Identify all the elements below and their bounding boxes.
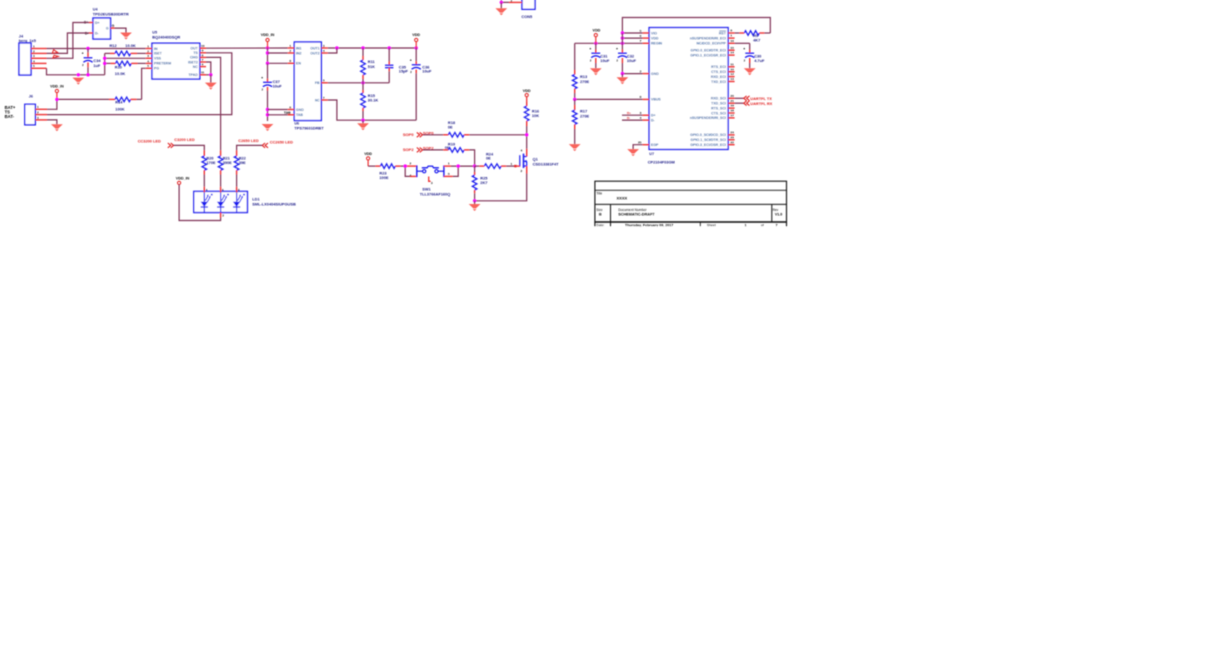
- svg-text:10uF: 10uF: [627, 58, 637, 63]
- power VDD at SW1: [364, 152, 372, 166]
- svg-text:GND: GND: [296, 108, 304, 112]
- svg-text:U7: U7: [649, 152, 654, 156]
- svg-text:VBUS: VBUS: [651, 98, 661, 102]
- capacitor C34 1uF: [82, 49, 102, 75]
- svg-text:V1.0: V1.0: [775, 212, 782, 216]
- connector J4 berg_1x5: [19, 34, 47, 75]
- svg-text:GPIO.3_ECI/DSR_ECI: GPIO.3_ECI/DSR_ECI: [690, 143, 726, 147]
- resistor R20 170E: [202, 150, 216, 174]
- svg-text:25: 25: [638, 141, 642, 145]
- svg-text:9: 9: [730, 29, 732, 33]
- ground at C31: [590, 68, 602, 75]
- svg-text:17: 17: [730, 114, 734, 118]
- svg-text:11: 11: [730, 62, 734, 66]
- net flag D- at U7: [627, 116, 630, 120]
- capacitor C37 10uF: [261, 63, 282, 108]
- svg-text:+: +: [82, 52, 84, 56]
- svg-text:15: 15: [730, 46, 734, 50]
- wire net VSS (U5.3): [105, 57, 146, 59]
- wire net R20 to LD1: [203, 175, 205, 187]
- svg-text:8: 8: [289, 59, 291, 63]
- resistor R24 0E: [475, 151, 517, 168]
- resistor R17 270E: [572, 99, 589, 144]
- svg-text:PG: PG: [154, 67, 159, 71]
- svg-text:5: 5: [323, 79, 325, 83]
- wire net VDD_IN (IN2/EN column): [266, 48, 288, 65]
- resistor R21 390E: [218, 150, 232, 174]
- svg-text:TAB: TAB: [296, 113, 303, 117]
- svg-text:Title: Title: [596, 191, 602, 195]
- svg-text:GPIO.1_SCI/DTR_SCI: GPIO.1_SCI/DTR_SCI: [690, 138, 725, 142]
- svg-text:IN2: IN2: [296, 51, 302, 55]
- svg-text:4: 4: [520, 149, 522, 153]
- svg-text:VDD_IN: VDD_IN: [176, 177, 190, 181]
- ground at R15: [357, 120, 369, 130]
- svg-text:RTS_SCI: RTS_SCI: [711, 106, 726, 110]
- resistor R25 2K7: [472, 166, 488, 201]
- svg-text:3: 3: [323, 44, 325, 48]
- svg-text:XXXX: XXXX: [617, 196, 628, 201]
- svg-text:G: G: [112, 24, 115, 28]
- svg-text:+: +: [616, 47, 618, 51]
- capacitor C30 4.7uF: [735, 43, 765, 68]
- svg-text:14: 14: [730, 51, 734, 55]
- power VDD_IN at LD1: [176, 177, 190, 185]
- resistor R18 0E: [423, 120, 469, 137]
- wire net VDD (U6.OUT rail): [328, 46, 418, 49]
- svg-text:8: 8: [238, 188, 240, 192]
- off-page UARTFL TX: [744, 96, 773, 101]
- wire net SOP2 (R19 to switch node): [469, 150, 474, 166]
- svg-text:4: 4: [147, 59, 149, 63]
- svg-text:VIO: VIO: [651, 31, 657, 35]
- connector J6 battery: [25, 94, 47, 124]
- svg-text:6: 6: [202, 63, 204, 67]
- svg-text:24: 24: [730, 131, 734, 135]
- svg-text:3: 3: [33, 54, 35, 58]
- svg-text:OUT2: OUT2: [310, 51, 319, 55]
- svg-text:NC/DCD_ECI/VPP: NC/DCD_ECI/VPP: [697, 42, 727, 46]
- wire net VDD (column to C32): [621, 33, 623, 50]
- svg-text:GPIO.0_ECI/DTR_ECI: GPIO.0_ECI/DTR_ECI: [690, 49, 725, 53]
- wire net FB (U6.5): [328, 81, 389, 84]
- resistor R10 10.0K: [105, 61, 146, 76]
- svg-text:EGP: EGP: [651, 143, 659, 147]
- wire net GND (U5 ISET2/TPAD): [206, 62, 213, 77]
- svg-text:CC3200 LED: CC3200 LED: [138, 138, 161, 143]
- svg-text:100E: 100E: [379, 175, 388, 180]
- svg-text:18: 18: [730, 109, 734, 113]
- svg-text:170E: 170E: [206, 160, 215, 165]
- wire net GND (U6 TAB pin): [268, 114, 288, 116]
- svg-text:13: 13: [730, 77, 734, 81]
- svg-text:UARTFL RX: UARTFL RX: [750, 101, 772, 106]
- svg-text:4K7: 4K7: [753, 37, 760, 42]
- svg-text:TLL3766AF160Q: TLL3766AF160Q: [420, 192, 451, 197]
- resistor R14 100K: [57, 97, 142, 111]
- wire net ~RST loop: [622, 18, 770, 34]
- svg-text:TXD_SCI: TXD_SCI: [711, 102, 726, 106]
- svg-text:TXD_ECI: TXD_ECI: [711, 80, 726, 84]
- svg-text:TPAD: TPAD: [189, 73, 199, 77]
- wire net VBUS (U7.8): [573, 98, 643, 101]
- svg-text:2: 2: [33, 49, 35, 53]
- wire net VDD_IN (J6.1 column): [47, 98, 59, 110]
- svg-text:C2650 LED: C2650 LED: [238, 138, 259, 143]
- svg-text:2: 2: [222, 213, 224, 217]
- svg-text:270E: 270E: [580, 114, 589, 119]
- svg-text:SML-LX0404SIUPGUSB: SML-LX0404SIUPGUSB: [252, 202, 296, 207]
- svg-text:2: 2: [37, 111, 39, 115]
- wire net GND (J6.3): [47, 120, 57, 124]
- svg-text:RTS_ECI: RTS_ECI: [711, 65, 726, 69]
- svg-text:7: 7: [202, 58, 204, 62]
- off-page SOP0: [403, 131, 434, 138]
- svg-text:2K7: 2K7: [480, 180, 487, 185]
- svg-text:4.7uF: 4.7uF: [754, 58, 765, 63]
- capacitor C36 10uF: [410, 48, 432, 120]
- wire net C2650 LED (to R22): [237, 145, 263, 150]
- svg-text:VDD: VDD: [412, 33, 420, 37]
- wire net D- (J4.2 to U4): [47, 33, 90, 53]
- svg-text:22: 22: [730, 140, 734, 144]
- svg-text:1: 1: [448, 162, 450, 166]
- svg-text:NC: NC: [315, 98, 320, 102]
- wire net UARTFL TX (U7.20): [735, 97, 744, 99]
- resistor R11 51K: [361, 48, 376, 83]
- svg-text:1: 1: [289, 44, 291, 48]
- svg-text:+: +: [743, 47, 745, 51]
- svg-text:5: 5: [147, 64, 149, 68]
- svg-text:2: 2: [289, 49, 291, 53]
- wire net PG (U5.5 to R14): [142, 68, 146, 99]
- resistor R13 270E: [572, 43, 589, 99]
- svg-text:R14: R14: [115, 99, 123, 104]
- ground at U6: [262, 124, 274, 131]
- ground at CON5: [495, 2, 507, 15]
- resistor R12 10.0K: [105, 43, 146, 56]
- wire net TS (U5.9 to J6.2): [47, 53, 232, 115]
- wire net GND (R25/Q1 source): [473, 174, 527, 203]
- svg-text:CP2104F03GM: CP2104F03GM: [648, 159, 675, 164]
- svg-text:RXD_SCI: RXD_SCI: [711, 97, 726, 101]
- power VDD at R16: [523, 89, 531, 97]
- svg-text:D+: D+: [95, 21, 100, 25]
- switch SW1 TLL3766AF160Q: [405, 162, 458, 197]
- resistor R16 10K: [524, 97, 539, 135]
- svg-text:TS: TS: [193, 51, 198, 55]
- wire net GND (J4.5 bottom run): [47, 68, 105, 76]
- ground at R25: [469, 201, 481, 211]
- svg-text:D-: D-: [627, 116, 630, 120]
- svg-text:10uF: 10uF: [600, 58, 610, 63]
- svg-text:10: 10: [730, 67, 734, 71]
- svg-text:4: 4: [323, 49, 325, 53]
- wire net VDD (REGIN run): [575, 42, 643, 45]
- svg-text:2: 2: [511, 0, 513, 3]
- wire net Q1 drain: [525, 133, 528, 149]
- svg-text:CC2650 LED: CC2650 LED: [270, 139, 293, 144]
- off-page CC2650 LED: [238, 138, 293, 148]
- power VDD_IN at U6: [261, 33, 275, 48]
- esd-protection U4 TPD2EUSB30DRTR: [84, 7, 129, 39]
- wire net GND (U6 GND/TAB column): [266, 108, 269, 121]
- wire net GND (U7.25): [633, 145, 643, 149]
- svg-text:VSS: VSS: [154, 57, 162, 61]
- svg-text:+: +: [261, 76, 263, 80]
- svg-text:5: 5: [448, 172, 450, 176]
- svg-text:J6: J6: [29, 94, 33, 98]
- svg-text:1: 1: [511, 162, 513, 166]
- connector CON5: [509, 0, 535, 19]
- svg-text:Document Number: Document Number: [618, 208, 647, 212]
- svg-text:7: 7: [323, 96, 325, 100]
- svg-text:4: 4: [33, 59, 35, 63]
- off-page SOP2: [403, 146, 434, 153]
- svg-text:+: +: [589, 47, 591, 51]
- capacitor C32 10uF: [616, 47, 637, 74]
- svg-text:VDD_IN: VDD_IN: [50, 84, 64, 88]
- svg-text:39E: 39E: [239, 160, 246, 165]
- svg-text:2: 2: [520, 169, 522, 173]
- svg-text:SCHEMATIC-DRAFT: SCHEMATIC-DRAFT: [618, 213, 655, 217]
- svg-text:CHG: CHG: [190, 56, 198, 60]
- wire net D+ (U7.3): [622, 114, 643, 116]
- svg-text:10uF: 10uF: [273, 84, 283, 89]
- svg-text:D+: D+: [627, 111, 631, 115]
- charger U5 BQ24040DSQR: [146, 31, 206, 79]
- svg-text:CON5: CON5: [521, 14, 533, 19]
- svg-text:TPS79601DRBT: TPS79601DRBT: [294, 125, 324, 130]
- net flag D- at J4: [52, 50, 57, 54]
- wire net R22 to LD1: [236, 175, 238, 187]
- svg-text:SOP2: SOP2: [403, 147, 414, 152]
- svg-text:CSD13381F4T: CSD13381F4T: [533, 162, 560, 167]
- ground at J6: [51, 124, 63, 131]
- svg-text:3: 3: [640, 111, 642, 115]
- svg-text:100K: 100K: [115, 106, 124, 111]
- svg-text:6: 6: [289, 105, 291, 109]
- ground at U7 EGP: [627, 149, 639, 156]
- svg-text:PRETERM: PRETERM: [154, 62, 171, 66]
- wire net GND (U7 GND pin): [621, 72, 643, 75]
- svg-text:VDD: VDD: [593, 28, 601, 32]
- svg-text:VDD: VDD: [364, 152, 372, 156]
- svg-text:1: 1: [745, 223, 747, 227]
- svg-text:1: 1: [730, 34, 732, 38]
- svg-text:19: 19: [730, 104, 734, 108]
- svg-text:VDD: VDD: [523, 89, 531, 93]
- svg-text:16: 16: [730, 39, 734, 43]
- svg-text:+: +: [410, 59, 412, 63]
- wire net VBUS (J4.1 to U5.IN): [47, 47, 146, 50]
- svg-text:Size: Size: [596, 208, 602, 212]
- svg-text:21: 21: [730, 99, 734, 103]
- svg-text:9: 9: [202, 49, 204, 53]
- svg-text:VDD: VDD: [651, 36, 659, 40]
- svg-text:3: 3: [431, 181, 433, 185]
- wire net SW out: [404, 164, 477, 167]
- svg-text:7: 7: [776, 223, 778, 227]
- svg-text:10uF: 10uF: [422, 69, 432, 74]
- resistor R19 0E: [423, 141, 469, 152]
- wire net VDD (VIO pin): [621, 31, 643, 34]
- svg-text:RST: RST: [719, 31, 727, 35]
- capacitor C31 10uF: [589, 43, 610, 68]
- svg-text:VDD_IN: VDD_IN: [261, 33, 275, 37]
- svg-text:270E: 270E: [580, 79, 589, 84]
- svg-text:1: 1: [33, 44, 35, 48]
- svg-text:RXD_ECI: RXD_ECI: [711, 75, 726, 79]
- svg-text:of: of: [761, 223, 764, 227]
- wire net SOP0 (R18 to R16 node): [469, 134, 526, 136]
- resistor R22 39E: [234, 150, 246, 174]
- svg-text:G: G: [106, 26, 109, 30]
- svg-text:4: 4: [640, 116, 642, 120]
- svg-text:5: 5: [640, 29, 642, 33]
- svg-text:NC: NC: [193, 65, 199, 69]
- svg-text:2: 2: [410, 162, 412, 166]
- led LD1 SML-LX0404SIUPGUSB: [194, 187, 296, 218]
- svg-text:GPIO.0_SCI/DCD_SCI: GPIO.0_SCI/DCD_SCI: [690, 133, 726, 137]
- svg-text:1: 1: [147, 44, 149, 48]
- wire net UARTFL RX (U7.21): [735, 102, 744, 104]
- svg-text:51K: 51K: [368, 64, 375, 69]
- wire net GND (U6.7/R15/C36 run): [328, 100, 416, 122]
- svg-text:11: 11: [201, 71, 205, 75]
- wire net VDD_IN (IN2 spur): [268, 52, 288, 54]
- svg-text:23: 23: [730, 135, 734, 139]
- svg-text:3: 3: [147, 54, 149, 58]
- svg-text:R10: R10: [115, 65, 122, 70]
- svg-text:0E: 0E: [448, 125, 453, 130]
- svg-text:BAT-: BAT-: [5, 114, 15, 119]
- label TAB: [284, 111, 291, 115]
- svg-text:IN: IN: [154, 47, 158, 51]
- svg-text:REGIN: REGIN: [651, 42, 663, 46]
- svg-text:10.0K: 10.0K: [125, 43, 136, 48]
- wire net VDD (OUT2 spur): [328, 48, 337, 53]
- regulator U6 TPS79601DRBT: [288, 42, 328, 130]
- ground at U7 GND: [617, 74, 629, 85]
- svg-text:8: 8: [640, 95, 642, 99]
- svg-text:IN1: IN1: [296, 46, 302, 50]
- ground at R17: [569, 144, 581, 151]
- svg-text:0E: 0E: [486, 156, 491, 161]
- svg-text:EN: EN: [296, 62, 301, 66]
- svg-text:3: 3: [37, 116, 39, 120]
- ground at J4 input: [72, 78, 84, 85]
- usb-uart U7 CP2104F03GM: [638, 28, 735, 165]
- wire net CHG (U5.8 to R21): [206, 57, 221, 150]
- svg-text:6: 6: [640, 34, 642, 38]
- svg-text:TPD2EUSB30DRTR: TPD2EUSB30DRTR: [93, 11, 129, 16]
- net flag D+ at J4: [53, 55, 59, 58]
- svg-text:OUT1: OUT1: [310, 46, 319, 50]
- svg-text:ISET: ISET: [154, 52, 163, 56]
- ground at U5.TPAD: [205, 75, 217, 90]
- svg-text:30.1K: 30.1K: [368, 98, 379, 103]
- wire net G (U4 to ground): [115, 28, 127, 32]
- svg-text:1uF: 1uF: [93, 63, 101, 68]
- svg-text:12: 12: [730, 72, 734, 76]
- svg-text:Sheet: Sheet: [707, 223, 716, 227]
- svg-text:nSUSPENDER/RI_SCI: nSUSPENDER/RI_SCI: [690, 116, 726, 120]
- off-page UARTFL RX: [744, 101, 773, 106]
- svg-text:4: 4: [410, 174, 412, 178]
- wire net D- (U7.4): [622, 119, 643, 121]
- svg-text:Thursday, February 09, 2017: Thursday, February 09, 2017: [625, 223, 673, 227]
- svg-text:FB: FB: [315, 81, 320, 85]
- svg-text:SOP0: SOP0: [403, 132, 414, 137]
- svg-text:5: 5: [33, 64, 35, 68]
- off-page CC3200 LED: [138, 137, 195, 148]
- svg-text:R12: R12: [110, 43, 118, 48]
- resistor R15 30.1K: [361, 83, 379, 120]
- svg-text:C3200 LED: C3200 LED: [174, 137, 195, 142]
- wire net R21 to LD1: [220, 175, 222, 187]
- title block: [595, 181, 787, 227]
- svg-text:OUT: OUT: [190, 47, 198, 51]
- resistor R9 4K7: [735, 31, 771, 43]
- svg-text:GND: GND: [651, 72, 659, 76]
- svg-text:CTS_ECI: CTS_ECI: [711, 70, 726, 74]
- svg-text:8: 8: [202, 53, 204, 57]
- wire net D+ (J4.3 to U4): [47, 23, 90, 59]
- svg-text:1: 1: [37, 105, 39, 109]
- svg-text:B: B: [599, 212, 602, 216]
- wire net GND (CON5): [500, 0, 509, 4]
- ground at C30: [744, 68, 756, 75]
- transistor Q1 CSD13381F4T: [511, 149, 560, 174]
- wire net GND tie (ISET column): [103, 53, 106, 74]
- wire net C3200 LED (to R20): [174, 145, 205, 150]
- svg-text:15pF: 15pF: [399, 69, 409, 74]
- svg-text:Rev: Rev: [773, 208, 779, 212]
- wire net VDD_IN (U5.OUT to U6.IN): [206, 46, 288, 49]
- svg-text:20: 20: [730, 94, 734, 98]
- svg-text:ISET2: ISET2: [188, 60, 198, 64]
- svg-text:10K: 10K: [532, 113, 539, 118]
- svg-text:2: 2: [147, 49, 149, 53]
- wire net VDD_IN (LD1 return): [179, 185, 221, 221]
- svg-text:BQ24040DSQR: BQ24040DSQR: [152, 34, 180, 39]
- svg-text:4: 4: [206, 188, 208, 192]
- svg-text:10: 10: [201, 44, 205, 48]
- svg-text:CTS_SCI: CTS_SCI: [711, 111, 726, 115]
- crop mask: [590, 227, 810, 237]
- svg-text:D+: D+: [651, 114, 656, 118]
- resistor R23 100E: [368, 164, 405, 180]
- power VDD at C36: [412, 33, 420, 48]
- svg-text:0E: 0E: [445, 146, 450, 150]
- svg-text:GPIO.1_ECI/DSR_ECI: GPIO.1_ECI/DSR_ECI: [690, 53, 726, 57]
- power VDD at U7: [593, 28, 601, 43]
- ground at U4.G: [120, 33, 132, 40]
- label BAT+ / TS / BAT-: [5, 105, 16, 119]
- svg-text:390E: 390E: [223, 160, 232, 165]
- net flag D+ at U7: [627, 111, 631, 115]
- svg-text:6: 6: [222, 188, 224, 192]
- svg-text:Date:: Date:: [596, 223, 604, 227]
- svg-text:nSUSPENDER/RI_ECI: nSUSPENDER/RI_ECI: [690, 36, 726, 40]
- svg-text:2: 2: [640, 69, 642, 73]
- svg-text:7: 7: [640, 39, 642, 43]
- capacitor C35 15pF: [385, 48, 409, 83]
- wire net VDD (VDD pin): [621, 36, 643, 39]
- wire net GND (U6 GND pin): [268, 109, 288, 111]
- svg-text:10.0K: 10.0K: [115, 71, 126, 76]
